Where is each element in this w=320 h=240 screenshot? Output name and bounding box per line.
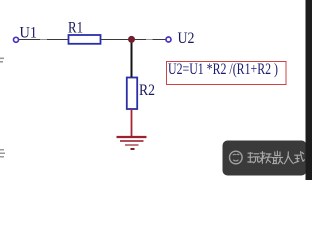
svg-text:U1: U1 <box>20 25 38 42</box>
svg-text:U2: U2 <box>178 30 195 47</box>
svg-text:R1: R1 <box>68 20 83 37</box>
svg-text:U2=U1 *R2 /(R1+R2 ): U2=U1 *R2 /(R1+R2 ) <box>168 61 278 78</box>
svg-text:R2: R2 <box>139 82 155 99</box>
